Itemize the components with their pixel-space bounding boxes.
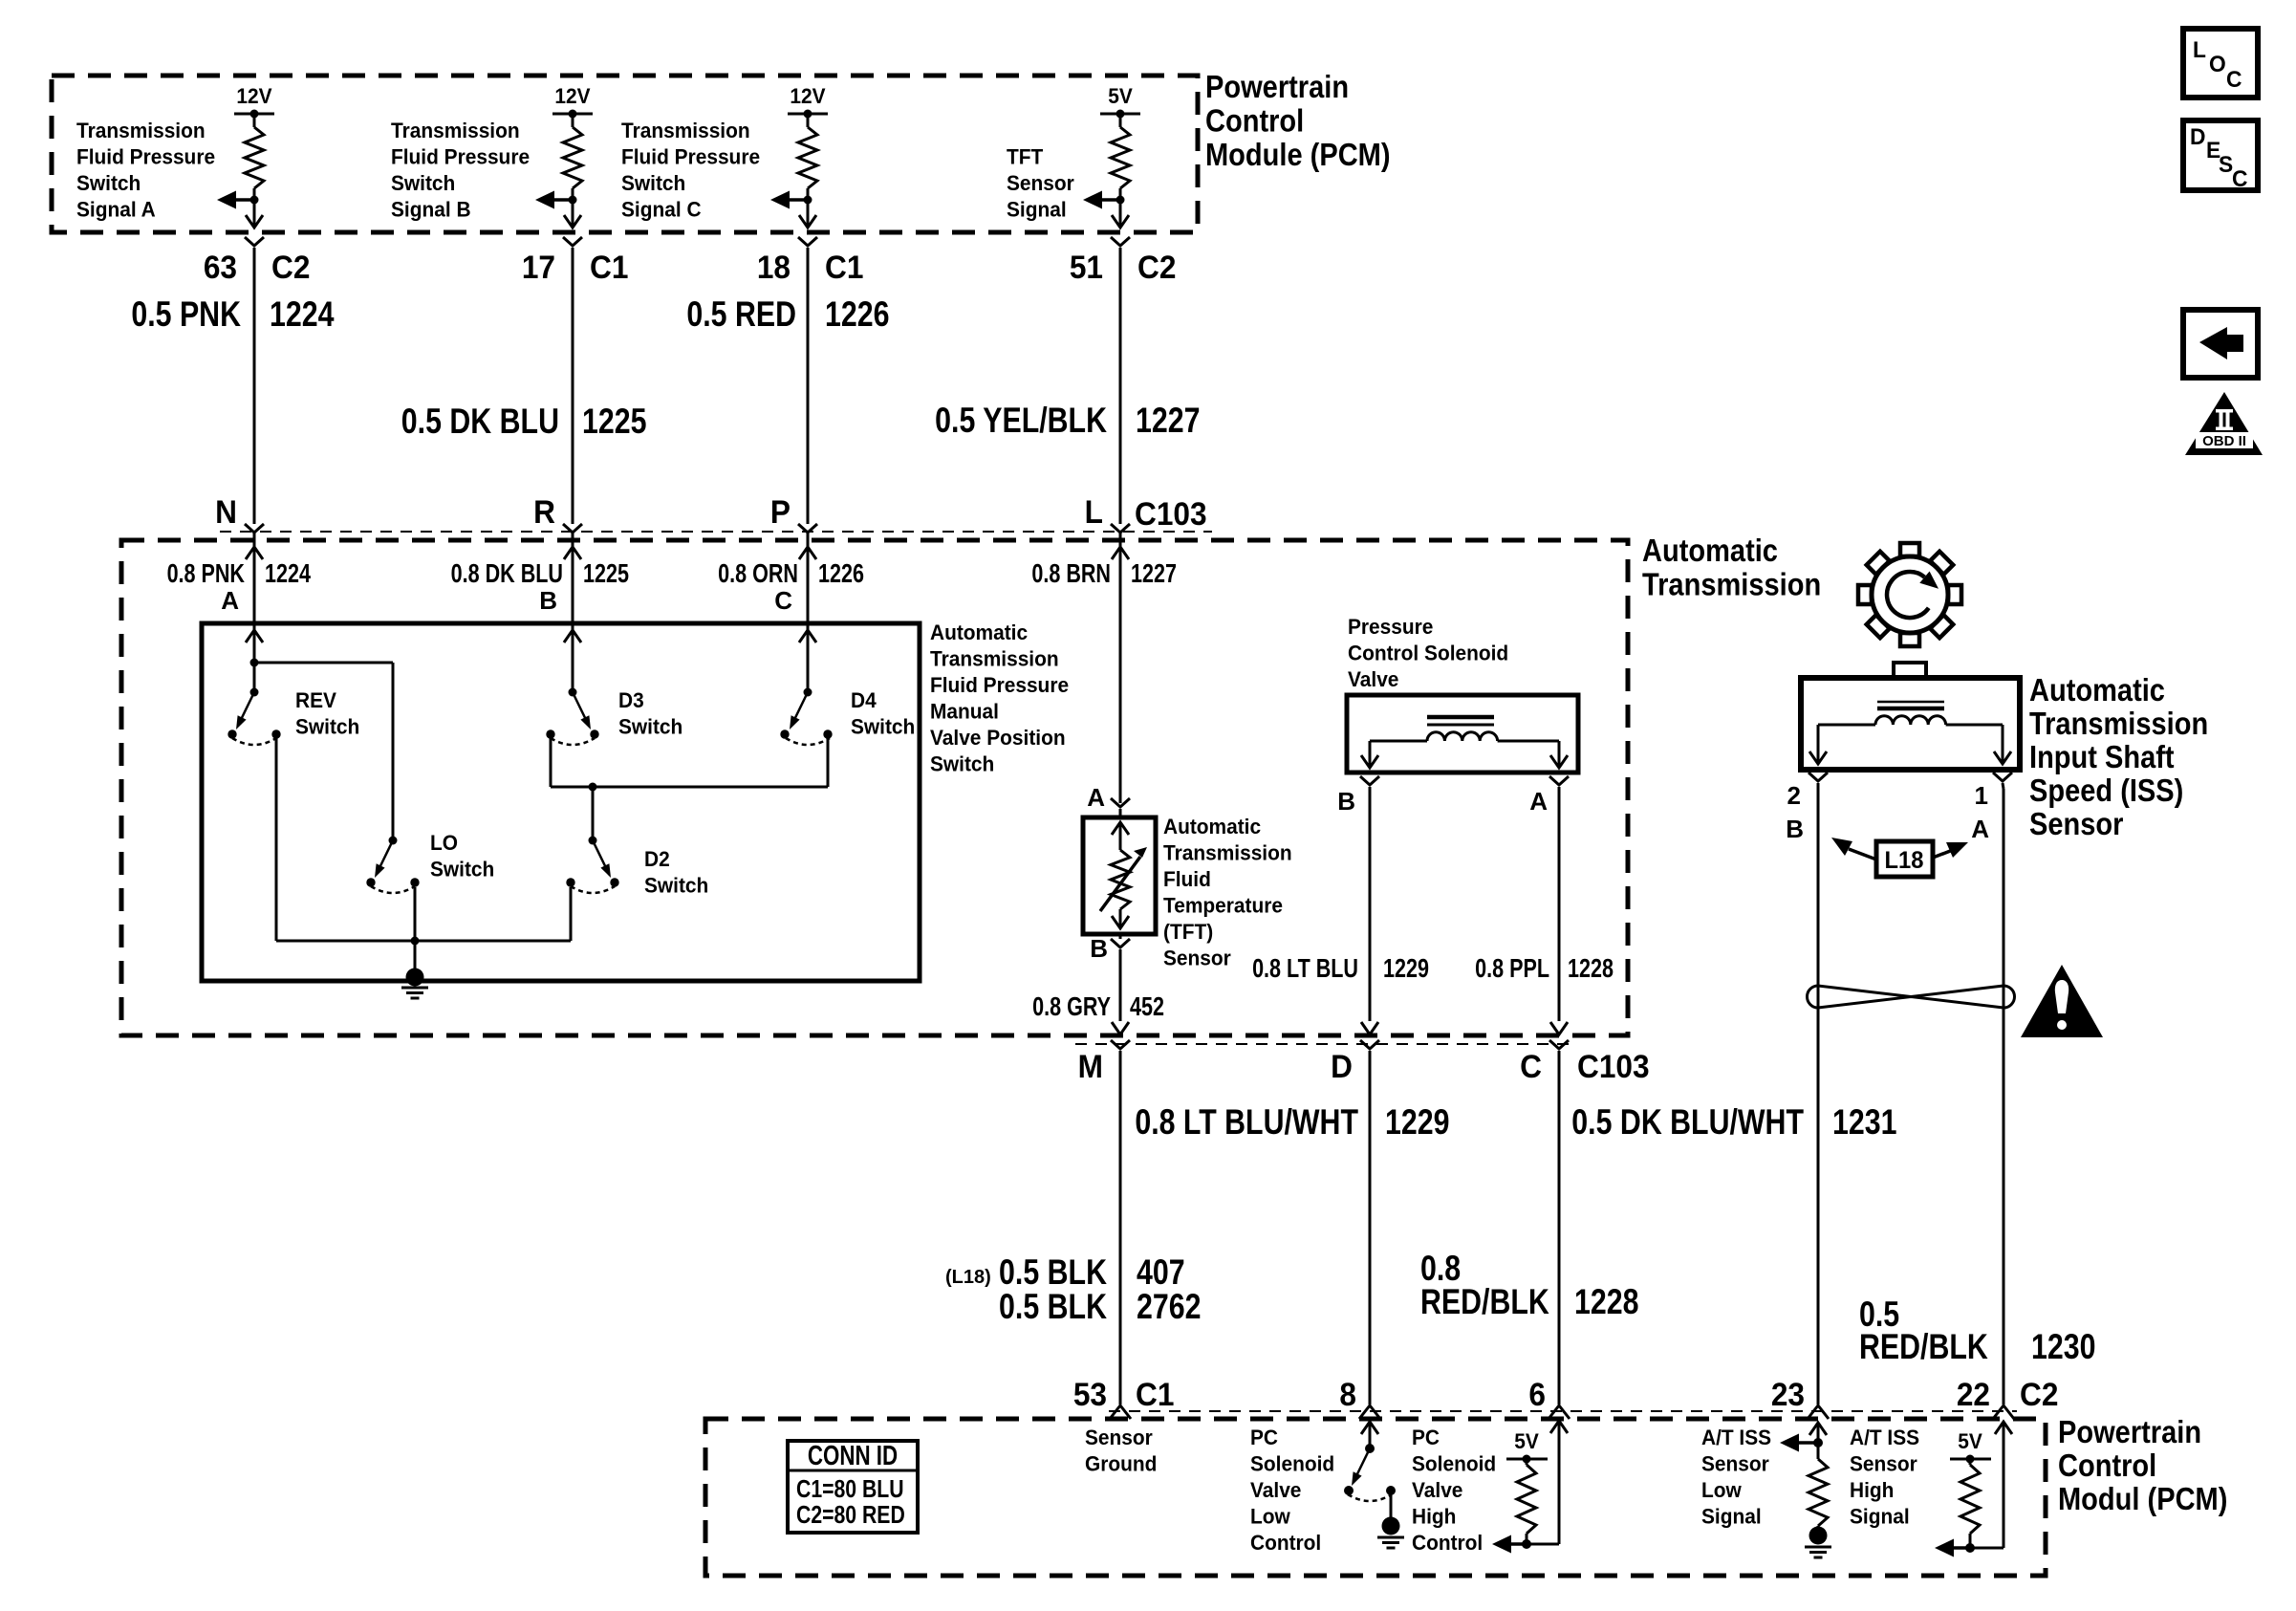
svg-text:B: B bbox=[1337, 787, 1355, 816]
svg-text:M: M bbox=[1078, 1048, 1103, 1084]
svg-text:Transmission: Transmission bbox=[621, 120, 750, 143]
svg-text:2: 2 bbox=[1787, 781, 1801, 810]
arrow out of transmission bbox=[1361, 1022, 1378, 1034]
LOC icon bbox=[2183, 29, 2258, 98]
arrow into PCM pin 23 bbox=[1809, 1423, 1827, 1435]
wire supply to resistor TFT bbox=[1119, 114, 1122, 127]
svg-text:B: B bbox=[539, 586, 557, 615]
ground bbox=[401, 987, 428, 990]
wire ground bus bbox=[276, 940, 571, 943]
svg-text:0.8 PNK: 0.8 PNK bbox=[167, 558, 245, 588]
wire D3-D4 bus bbox=[551, 786, 828, 789]
svg-text:1224: 1224 bbox=[270, 294, 335, 335]
wire D3 contact down bbox=[550, 738, 552, 787]
svg-text:C: C bbox=[2226, 66, 2242, 92]
svg-text:C: C bbox=[1520, 1048, 1542, 1084]
svg-text:PC: PC bbox=[1412, 1426, 1440, 1450]
svg-text:Control: Control bbox=[1250, 1532, 1321, 1556]
wire REV junction to LO bbox=[254, 662, 393, 664]
svg-text:23: 23 bbox=[1771, 1376, 1805, 1412]
node 12V bar C bbox=[788, 113, 828, 116]
svg-text:Input Shaft: Input Shaft bbox=[2029, 739, 2175, 774]
svg-text:53: 53 bbox=[1073, 1376, 1107, 1412]
svg-text:1229: 1229 bbox=[1385, 1102, 1449, 1143]
arrow up in switch box bbox=[564, 630, 581, 642]
ISS leads bbox=[1818, 724, 1875, 727]
svg-text:Low: Low bbox=[1250, 1505, 1290, 1529]
ground ball PC low bbox=[1382, 1517, 1400, 1535]
arrow up into C103 at 1224 bbox=[246, 547, 263, 559]
svg-text:Ground: Ground bbox=[1085, 1452, 1157, 1476]
svg-text:O: O bbox=[2209, 51, 2226, 76]
ISS core bbox=[1877, 701, 1944, 704]
wire supply to resistor C bbox=[807, 114, 810, 127]
signal arrow A bbox=[234, 198, 254, 202]
wire REV contact down bbox=[275, 738, 278, 941]
connector line (bottom) bbox=[1109, 1410, 2017, 1412]
svg-text:L18: L18 bbox=[1885, 847, 1924, 874]
svg-text:S: S bbox=[2219, 151, 2233, 177]
svg-text:C1: C1 bbox=[590, 249, 628, 285]
wire bus ISS high bbox=[1951, 1547, 2004, 1550]
svg-text:0.8 GRY: 0.8 GRY bbox=[1032, 991, 1111, 1021]
svg-text:Switch: Switch bbox=[621, 172, 685, 196]
arrow out of PCM B bbox=[564, 215, 581, 228]
ground PC low bbox=[1377, 1536, 1404, 1539]
resistor pull-up TFT bbox=[1111, 127, 1130, 188]
wire resistor to node C bbox=[807, 188, 810, 200]
switch LO pivot bbox=[389, 837, 398, 845]
svg-text:63: 63 bbox=[204, 249, 237, 285]
arrow into PCM pin 22 bbox=[1995, 1422, 2012, 1434]
svg-text:Modul (PCM): Modul (PCM) bbox=[2058, 1481, 2227, 1516]
svg-text:Manual: Manual bbox=[930, 700, 999, 724]
svg-text:Control Solenoid: Control Solenoid bbox=[1348, 642, 1508, 665]
wire node to pin TFT bbox=[1119, 200, 1122, 226]
switch PC low arm bbox=[1355, 1448, 1370, 1477]
svg-text:Signal: Signal bbox=[1701, 1505, 1762, 1529]
PCM box (bottom) bbox=[705, 1419, 2046, 1576]
svg-text:High: High bbox=[1850, 1479, 1894, 1503]
svg-text:Transmission: Transmission bbox=[1163, 841, 1292, 865]
wire resistor to node TFT bbox=[1119, 188, 1122, 200]
svg-text:TFT: TFT bbox=[1007, 145, 1043, 169]
wire supply to resistor A bbox=[253, 114, 256, 127]
ISS gear teeth bbox=[1900, 543, 1919, 556]
wire into switch box bbox=[253, 626, 256, 663]
svg-text:1228: 1228 bbox=[1574, 1282, 1638, 1322]
svg-text:C1: C1 bbox=[1136, 1376, 1174, 1412]
back arrow icon bbox=[2183, 310, 2258, 378]
svg-text:Signal A: Signal A bbox=[76, 198, 156, 222]
L18 box bbox=[1876, 841, 1933, 877]
wire D4 contact down bbox=[827, 738, 830, 787]
PC solenoid leads bbox=[1370, 740, 1427, 743]
svg-text:Switch: Switch bbox=[430, 858, 494, 882]
switch REV pivot bbox=[250, 688, 259, 697]
svg-text:LO: LO bbox=[430, 832, 458, 856]
wire LO contact down bbox=[414, 887, 417, 941]
svg-text:Control: Control bbox=[1205, 103, 1304, 139]
svg-text:P: P bbox=[770, 493, 791, 530]
svg-text:Sensor: Sensor bbox=[1850, 1452, 1917, 1476]
svg-text:Automatic: Automatic bbox=[930, 621, 1028, 645]
wire resistor to bus PC high bbox=[1526, 1534, 1528, 1544]
PC solenoid core bbox=[1427, 715, 1494, 720]
svg-text:12V: 12V bbox=[554, 85, 591, 109]
svg-text:D: D bbox=[2190, 123, 2205, 149]
node 12V bar B bbox=[552, 113, 593, 116]
switch PC low contacts bbox=[1344, 1486, 1354, 1495]
svg-text:R: R bbox=[533, 493, 555, 530]
svg-text:2762: 2762 bbox=[1137, 1287, 1201, 1327]
svg-text:A: A bbox=[221, 586, 239, 615]
svg-text:(L18): (L18) bbox=[945, 1267, 991, 1288]
wire resistor to bus ISS high bbox=[1969, 1534, 1972, 1548]
PCM box (top) bbox=[52, 76, 1198, 232]
svg-text:Powertrain: Powertrain bbox=[1205, 69, 1349, 104]
svg-text:0.5 BLK: 0.5 BLK bbox=[999, 1287, 1107, 1327]
arrow out of PCM C bbox=[799, 215, 816, 228]
svg-text:Sensor: Sensor bbox=[1163, 947, 1231, 970]
svg-text:Control: Control bbox=[2058, 1448, 2156, 1483]
wire to ground bbox=[414, 941, 417, 971]
connector Y pin A bbox=[245, 237, 264, 246]
svg-text:17: 17 bbox=[522, 249, 555, 285]
switch D4 pivot bbox=[804, 688, 812, 697]
svg-text:Sensor: Sensor bbox=[2029, 806, 2123, 841]
svg-text:Control: Control bbox=[1412, 1532, 1483, 1556]
TFT internal wire bbox=[1119, 822, 1122, 850]
wire D2 contact down bbox=[570, 887, 573, 941]
svg-text:Signal: Signal bbox=[1007, 198, 1067, 222]
node REV junction bbox=[250, 659, 259, 667]
svg-text:Valve: Valve bbox=[1250, 1479, 1301, 1503]
wire into transmission at 1225 bbox=[572, 533, 574, 626]
wire ISS A down bbox=[2003, 783, 2004, 789]
switch D3 contacts bbox=[546, 729, 554, 738]
svg-text:Switch: Switch bbox=[618, 715, 682, 739]
connector Y pin B bbox=[563, 237, 582, 246]
wire into switch box bbox=[572, 626, 574, 663]
svg-text:5V: 5V bbox=[1514, 1430, 1539, 1454]
connector Y pin C bbox=[798, 237, 817, 246]
svg-text:1226: 1226 bbox=[818, 558, 864, 588]
switch D4 contacts bbox=[780, 729, 789, 738]
arrow into PCM pin 8 bbox=[1361, 1422, 1378, 1434]
svg-text:CONN ID: CONN ID bbox=[808, 1441, 898, 1470]
node ground bus bbox=[411, 937, 420, 946]
warning triangle bbox=[2021, 965, 2103, 1037]
svg-text:Automatic: Automatic bbox=[1163, 816, 1261, 839]
svg-text:D: D bbox=[1331, 1048, 1353, 1084]
svg-text:Solenoid: Solenoid bbox=[1250, 1452, 1334, 1476]
switch D3 arm bbox=[573, 692, 587, 721]
ground ball ISS low bbox=[1817, 1526, 1820, 1528]
svg-text:6: 6 bbox=[1528, 1376, 1546, 1412]
svg-text:Signal C: Signal C bbox=[621, 198, 702, 222]
arrow up in switch box bbox=[246, 630, 263, 642]
svg-text:Transmission: Transmission bbox=[1642, 567, 1821, 602]
svg-text:C2: C2 bbox=[2020, 1376, 2058, 1412]
arrow up into C103 at 1225 bbox=[564, 547, 581, 559]
svg-text:1231: 1231 bbox=[1832, 1102, 1896, 1143]
svg-text:0.5 YEL/BLK: 0.5 YEL/BLK bbox=[935, 401, 1107, 441]
valve position switch box bbox=[202, 623, 920, 981]
node D2 tap bbox=[589, 783, 597, 792]
svg-text:D4: D4 bbox=[851, 689, 877, 713]
connector C103 line (top) bbox=[220, 531, 1212, 533]
svg-text:B: B bbox=[1786, 815, 1804, 843]
svg-text:Switch: Switch bbox=[930, 752, 994, 776]
svg-text:Speed (ISS): Speed (ISS) bbox=[2029, 773, 2183, 808]
svg-text:Temperature: Temperature bbox=[1163, 894, 1283, 918]
arrow out of PCM A bbox=[246, 215, 263, 228]
L18 arrow left bbox=[1849, 849, 1876, 860]
wire ISS B down bbox=[1817, 783, 1820, 1404]
resistor PC high bbox=[1517, 1465, 1536, 1534]
svg-text:18: 18 bbox=[757, 249, 791, 285]
connector Y pin TFT bbox=[1111, 237, 1130, 246]
wire resistor to node B bbox=[572, 188, 574, 200]
svg-text:Fluid: Fluid bbox=[1163, 868, 1211, 892]
svg-text:Switch: Switch bbox=[851, 715, 915, 739]
node 12V bar A bbox=[234, 113, 274, 116]
twisted pair bbox=[1818, 986, 2004, 1008]
arrow up in switch box bbox=[799, 630, 816, 642]
wire node to pin A bbox=[253, 200, 256, 226]
wire solenoid B down bbox=[1369, 787, 1372, 1021]
svg-text:Valve: Valve bbox=[1412, 1479, 1462, 1503]
svg-text:Fluid Pressure: Fluid Pressure bbox=[391, 145, 530, 169]
svg-text:Switch: Switch bbox=[295, 715, 359, 739]
svg-text:1: 1 bbox=[1975, 781, 1988, 810]
svg-text:REV: REV bbox=[295, 689, 337, 713]
svg-text:C1: C1 bbox=[825, 249, 863, 285]
svg-text:A: A bbox=[1971, 815, 1989, 843]
wire supply to resistor B bbox=[572, 114, 574, 127]
svg-text:Sensor: Sensor bbox=[1701, 1452, 1769, 1476]
wire D2 feed bbox=[592, 787, 595, 840]
ground ball bbox=[406, 969, 424, 987]
svg-text:Valve: Valve bbox=[1348, 668, 1398, 692]
svg-text:C2: C2 bbox=[1137, 249, 1176, 285]
resistor pull-up A bbox=[245, 127, 264, 188]
TFT internal wire low bbox=[1119, 909, 1122, 928]
signal arrow C bbox=[788, 198, 808, 202]
ISS sensor tab bbox=[1894, 663, 1926, 678]
svg-text:Transmission: Transmission bbox=[391, 120, 520, 143]
svg-text:RED/BLK: RED/BLK bbox=[1859, 1327, 1988, 1367]
svg-text:C: C bbox=[774, 586, 792, 615]
svg-text:Pressure: Pressure bbox=[1348, 616, 1433, 640]
svg-text:Signal B: Signal B bbox=[391, 198, 471, 222]
svg-text:L: L bbox=[1085, 493, 1103, 530]
svg-text:C2=80 RED: C2=80 RED bbox=[796, 1501, 905, 1530]
switch REV contacts bbox=[227, 729, 236, 738]
switch D3 pivot bbox=[569, 688, 577, 697]
switch D2 contacts bbox=[566, 878, 574, 886]
svg-text:Switch: Switch bbox=[644, 874, 708, 898]
svg-text:A/T ISS: A/T ISS bbox=[1850, 1426, 1919, 1450]
TFT variable arrow bbox=[1100, 857, 1140, 911]
svg-text:Signal: Signal bbox=[1850, 1505, 1910, 1529]
svg-text:0.5 DK BLU: 0.5 DK BLU bbox=[401, 402, 559, 442]
svg-text:C103: C103 bbox=[1577, 1048, 1650, 1084]
svg-text:1224: 1224 bbox=[265, 558, 311, 588]
DESC icon bbox=[2183, 120, 2258, 190]
wire solenoid A down bbox=[1558, 787, 1561, 1021]
ISS sensor box bbox=[1801, 678, 2020, 770]
wire pin 8 to switch bbox=[1369, 1422, 1372, 1448]
resistor ISS low bbox=[1809, 1459, 1828, 1526]
svg-text:Powertrain: Powertrain bbox=[2058, 1414, 2201, 1449]
svg-text:Transmission: Transmission bbox=[930, 647, 1059, 671]
resistor ISS high bbox=[1960, 1465, 1980, 1534]
wire node to pin C bbox=[807, 200, 810, 226]
signal arrow ISS high bbox=[1952, 1546, 1970, 1550]
svg-text:RED/BLK: RED/BLK bbox=[1420, 1282, 1549, 1322]
svg-text:0.8 LT BLU: 0.8 LT BLU bbox=[1252, 953, 1358, 983]
wire node to pin B bbox=[572, 200, 574, 226]
svg-text:0.5 RED: 0.5 RED bbox=[686, 294, 796, 335]
switch REV arm bbox=[240, 692, 254, 721]
svg-text:0.8 BRN: 0.8 BRN bbox=[1031, 558, 1111, 588]
svg-text:Fluid Pressure: Fluid Pressure bbox=[930, 674, 1069, 698]
svg-text:Fluid Pressure: Fluid Pressure bbox=[76, 145, 215, 169]
svg-text:A/T ISS: A/T ISS bbox=[1701, 1426, 1771, 1450]
wire pin 23 bbox=[1817, 1423, 1820, 1459]
svg-text:C2: C2 bbox=[271, 249, 310, 285]
wire into transmission at 1226 bbox=[807, 533, 810, 626]
signal arrow TFT bbox=[1100, 198, 1120, 202]
svg-text:12V: 12V bbox=[236, 85, 272, 109]
arrow out of transmission bbox=[1112, 1022, 1129, 1034]
Automatic Transmission box bbox=[121, 540, 1628, 1035]
svg-text:PC: PC bbox=[1250, 1426, 1278, 1450]
resistor pull-up C bbox=[798, 127, 817, 188]
svg-text:0.8 DK BLU: 0.8 DK BLU bbox=[451, 558, 563, 588]
svg-text:Transmission: Transmission bbox=[2029, 706, 2208, 741]
svg-text:High: High bbox=[1412, 1505, 1456, 1529]
svg-text:452: 452 bbox=[1130, 991, 1164, 1021]
svg-text:C103: C103 bbox=[1135, 495, 1207, 532]
svg-text:Switch: Switch bbox=[391, 172, 455, 196]
svg-text:Sensor: Sensor bbox=[1085, 1426, 1153, 1450]
svg-text:22: 22 bbox=[1957, 1376, 1990, 1412]
TFT sensor box bbox=[1083, 817, 1156, 934]
wire BRN to TFT bbox=[1119, 560, 1122, 803]
arrow into PCM pin 6 bbox=[1550, 1421, 1568, 1433]
svg-text:0.8 LT BLU/WHT: 0.8 LT BLU/WHT bbox=[1135, 1102, 1358, 1143]
TFT thermistor bbox=[1111, 850, 1130, 909]
svg-text:1230: 1230 bbox=[2031, 1327, 2095, 1367]
svg-text:Sensor: Sensor bbox=[1007, 172, 1074, 196]
wire GRY to C103 bbox=[1119, 949, 1122, 1021]
svg-text:(TFT): (TFT) bbox=[1163, 921, 1213, 945]
svg-text:A: A bbox=[1087, 783, 1105, 812]
svg-text:1225: 1225 bbox=[583, 558, 629, 588]
switch D2 arm bbox=[593, 840, 607, 869]
svg-text:Switch: Switch bbox=[76, 172, 141, 196]
svg-text:1225: 1225 bbox=[582, 402, 646, 442]
wire PC low to ground bbox=[1390, 1495, 1393, 1518]
arrow up into C103 at 1226 bbox=[799, 547, 816, 559]
wire into switch box bbox=[807, 626, 810, 663]
signal arrow PC high bbox=[1509, 1542, 1527, 1546]
ground ISS low bbox=[1805, 1546, 1831, 1549]
wire into transmission at 1224 bbox=[253, 533, 256, 626]
svg-text:1226: 1226 bbox=[825, 294, 889, 335]
svg-text:Transmission: Transmission bbox=[76, 120, 206, 143]
svg-text:Valve Position: Valve Position bbox=[930, 727, 1066, 751]
svg-text:L: L bbox=[2193, 36, 2206, 62]
connector C103 line (bottom) bbox=[1075, 1043, 1572, 1045]
switch LO contacts bbox=[366, 878, 375, 886]
arrow out of PCM TFT bbox=[1112, 215, 1129, 228]
L18 arrow right bbox=[1933, 850, 1953, 858]
signal arrow B bbox=[552, 198, 573, 202]
svg-text:A: A bbox=[1529, 787, 1548, 816]
svg-text:Solenoid: Solenoid bbox=[1412, 1452, 1496, 1476]
switch LO arm bbox=[379, 840, 393, 869]
svg-text:D2: D2 bbox=[644, 848, 670, 872]
svg-text:Module (PCM): Module (PCM) bbox=[1205, 137, 1391, 172]
svg-text:51: 51 bbox=[1070, 249, 1103, 285]
svg-text:0.5 PNK: 0.5 PNK bbox=[131, 294, 241, 335]
svg-text:0.8 ORN: 0.8 ORN bbox=[718, 558, 798, 588]
PC solenoid valve box bbox=[1347, 695, 1578, 773]
wire bus PC high bbox=[1508, 1543, 1559, 1546]
svg-text:D3: D3 bbox=[618, 689, 644, 713]
svg-text:B: B bbox=[1090, 934, 1108, 963]
svg-text:1227: 1227 bbox=[1131, 558, 1177, 588]
svg-text:Automatic: Automatic bbox=[2029, 672, 2165, 708]
svg-text:12V: 12V bbox=[790, 85, 826, 109]
node 5V bar ISS high bbox=[1950, 1458, 1991, 1461]
svg-text:0.8 PPL: 0.8 PPL bbox=[1475, 953, 1549, 983]
ISS coil bbox=[1875, 716, 1946, 725]
ISS gear rotation arrow bbox=[1887, 572, 1929, 618]
arrow out of transmission bbox=[1550, 1022, 1568, 1034]
svg-text:C: C bbox=[2232, 165, 2248, 191]
svg-text:C1=80 BLU: C1=80 BLU bbox=[796, 1475, 904, 1504]
svg-text:1227: 1227 bbox=[1136, 401, 1200, 441]
node 5V bar TFT bbox=[1100, 113, 1140, 116]
ISS arrows bbox=[1809, 751, 1827, 764]
svg-text:5V: 5V bbox=[1108, 85, 1133, 109]
svg-text:8: 8 bbox=[1339, 1376, 1356, 1412]
svg-text:Fluid Pressure: Fluid Pressure bbox=[621, 145, 760, 169]
resistor pull-up B bbox=[563, 127, 582, 188]
arrow up into C103 at 1227 bbox=[1112, 547, 1129, 559]
switch D4 arm bbox=[793, 692, 808, 721]
svg-text:Low: Low bbox=[1701, 1479, 1742, 1503]
OBD II icon bbox=[2185, 392, 2263, 455]
PC solenoid coil bbox=[1427, 732, 1498, 741]
svg-text:0.5 DK BLU/WHT: 0.5 DK BLU/WHT bbox=[1571, 1102, 1804, 1143]
wire resistor to node A bbox=[253, 188, 256, 200]
wire into transmission at 1227 bbox=[1119, 533, 1122, 626]
ISS gear ring bbox=[1872, 556, 1948, 633]
CONN ID box bbox=[788, 1441, 918, 1533]
svg-text:1229: 1229 bbox=[1383, 953, 1429, 983]
switch D2 pivot bbox=[589, 837, 597, 845]
svg-text:5V: 5V bbox=[1958, 1430, 1982, 1454]
svg-text:1228: 1228 bbox=[1568, 953, 1614, 983]
switch PC low pivot bbox=[1365, 1444, 1375, 1453]
PC solenoid arrows bbox=[1361, 755, 1378, 768]
